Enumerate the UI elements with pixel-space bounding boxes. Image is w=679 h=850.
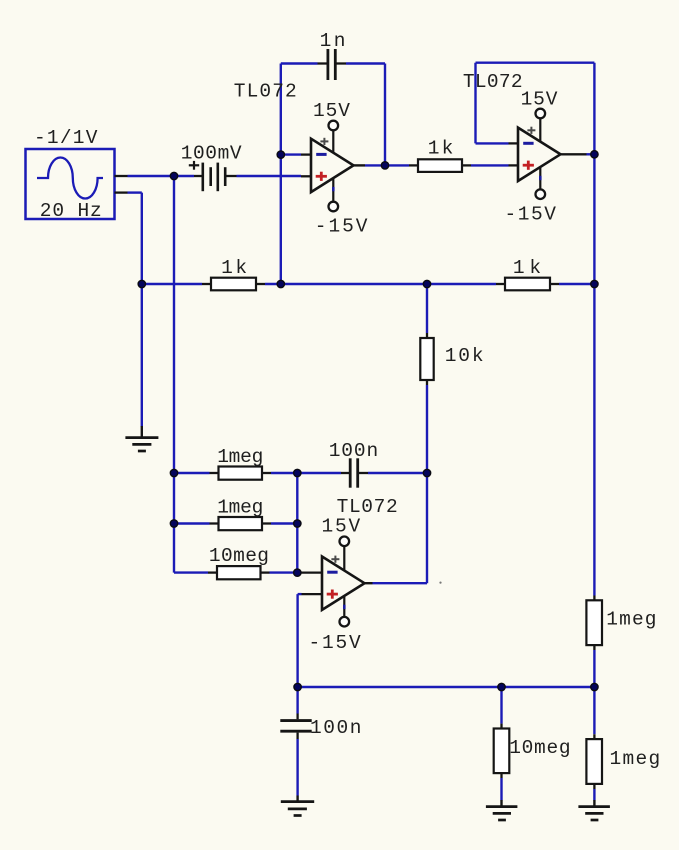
svg-text:100mV: 100mV — [181, 143, 242, 165]
svg-text:1k: 1k — [428, 138, 454, 160]
svg-text:100n: 100n — [310, 717, 361, 739]
svg-text:20 Hz: 20 Hz — [40, 200, 102, 222]
svg-text:1meg: 1meg — [217, 446, 263, 468]
svg-text:10k: 10k — [445, 345, 484, 367]
svg-text:10meg: 10meg — [209, 545, 269, 567]
svg-text:15V: 15V — [521, 89, 558, 111]
svg-text:15V: 15V — [322, 515, 361, 537]
svg-text:TL072: TL072 — [234, 81, 297, 103]
svg-text:-15V: -15V — [315, 215, 368, 237]
svg-text:-1/1V: -1/1V — [34, 127, 98, 149]
svg-text:15V: 15V — [313, 100, 350, 122]
svg-text:1k: 1k — [221, 257, 247, 279]
svg-text:-15V: -15V — [505, 204, 557, 226]
svg-text:TL072: TL072 — [463, 71, 523, 93]
svg-text:100n: 100n — [329, 440, 379, 462]
svg-text:1meg: 1meg — [217, 497, 263, 519]
svg-text:1n: 1n — [320, 30, 346, 52]
svg-text:10meg: 10meg — [509, 737, 570, 759]
svg-text:-15V: -15V — [309, 632, 361, 654]
svg-text:1meg: 1meg — [606, 608, 656, 630]
svg-text:1meg: 1meg — [610, 748, 661, 770]
svg-text:1k: 1k — [513, 257, 541, 279]
